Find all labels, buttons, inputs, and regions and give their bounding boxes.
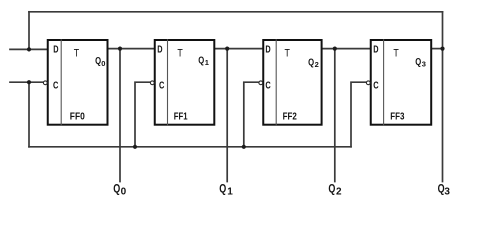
svg-text:2: 2: [315, 60, 319, 69]
svg-text:Q: Q: [308, 58, 314, 69]
svg-text:T: T: [285, 47, 291, 59]
svg-text:Q: Q: [415, 57, 421, 68]
svg-text:0: 0: [121, 186, 127, 197]
svg-text:FF0: FF0: [70, 112, 85, 123]
svg-text:0: 0: [101, 59, 105, 68]
svg-text:FF2: FF2: [283, 112, 298, 123]
svg-text:T: T: [177, 47, 183, 59]
svg-text:1: 1: [227, 186, 233, 197]
svg-text:D: D: [373, 44, 379, 56]
svg-text:FF1: FF1: [174, 112, 188, 123]
svg-text:D: D: [265, 44, 271, 56]
svg-text:C: C: [373, 80, 379, 92]
svg-text:D: D: [157, 44, 163, 56]
svg-text:3: 3: [422, 59, 426, 68]
svg-text:T: T: [393, 47, 399, 59]
svg-text:C: C: [265, 80, 271, 92]
svg-text:Q: Q: [219, 184, 226, 196]
svg-text:2: 2: [336, 186, 342, 197]
svg-text:D: D: [53, 44, 59, 56]
svg-text:1: 1: [205, 58, 209, 67]
svg-text:Q: Q: [198, 56, 204, 67]
svg-text:3: 3: [444, 186, 450, 197]
svg-text:C: C: [53, 80, 59, 92]
svg-text:FF3: FF3: [390, 112, 405, 123]
svg-text:Q: Q: [328, 184, 335, 196]
svg-text:C: C: [159, 80, 165, 92]
svg-text:T: T: [74, 47, 80, 59]
svg-text:Q: Q: [113, 184, 120, 196]
